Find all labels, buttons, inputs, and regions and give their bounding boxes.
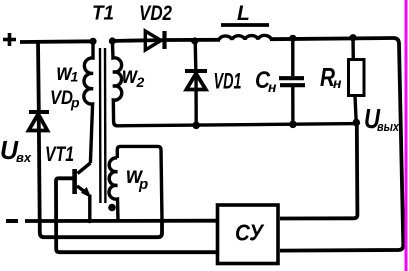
control box СУ bbox=[218, 205, 279, 264]
polarity dot wp bbox=[108, 204, 116, 212]
winding w1 bbox=[84, 41, 93, 163]
svg-text:VD: VD bbox=[50, 88, 73, 109]
resistor RН with wires bbox=[349, 38, 365, 123]
capacitor CН with wires bbox=[279, 38, 305, 124]
base bar bbox=[72, 169, 77, 194]
svg-text:p: p bbox=[138, 176, 148, 193]
svg-text:1: 1 bbox=[71, 69, 79, 85]
emitter arrow bbox=[82, 188, 90, 196]
svg-text:н: н bbox=[333, 75, 342, 91]
inductor L bbox=[219, 35, 271, 40]
wire left branch lower (crosses minus rail, to line A) bbox=[39, 131, 162, 238]
wire minus rail bbox=[25, 219, 217, 223]
minus terminal bbox=[6, 219, 18, 223]
svg-text:T1: T1 bbox=[92, 3, 114, 25]
wire top rail mid bbox=[110, 38, 146, 43]
svg-text:VD2: VD2 bbox=[139, 2, 172, 25]
svg-text:VT1: VT1 bbox=[45, 143, 74, 166]
wire wp top loop bbox=[117, 146, 162, 221]
diode VD1 with wires bbox=[185, 41, 207, 125]
svg-text:VD1: VD1 bbox=[214, 69, 242, 94]
wire top rail right + right edge down bbox=[270, 38, 403, 251]
underline of L bbox=[221, 23, 269, 27]
plus terminal bbox=[3, 33, 16, 46]
winding wp bbox=[109, 158, 118, 221]
winding w2 bbox=[112, 41, 357, 126]
svg-text:вых: вых bbox=[377, 119, 400, 134]
wire feedback from output node to control box bbox=[280, 124, 357, 219]
emitter diagonal bbox=[77, 186, 89, 195]
svg-text:L: L bbox=[237, 2, 250, 25]
wire top rail after VD2 bbox=[166, 38, 220, 42]
collector diagonal bbox=[78, 163, 91, 174]
scan artifact magenta edge bbox=[405, 0, 408, 271]
wire left branch upper (to VDp) bbox=[36, 42, 41, 110]
svg-text:р: р bbox=[70, 95, 80, 111]
svg-text:вх: вх bbox=[16, 150, 32, 165]
wire base drive to control box bbox=[56, 178, 217, 252]
wire top rail left bbox=[20, 39, 95, 44]
svg-text:СУ: СУ bbox=[235, 220, 265, 246]
junction dots bbox=[89, 38, 96, 45]
svg-text:н: н bbox=[268, 79, 277, 95]
transformer T1 core bbox=[100, 48, 105, 203]
transistor VT1 bbox=[75, 163, 91, 221]
diode VDp bbox=[29, 111, 49, 132]
diode VD2 bbox=[144, 31, 166, 50]
svg-text:2: 2 bbox=[136, 74, 145, 90]
emitter wire bbox=[88, 195, 91, 222]
